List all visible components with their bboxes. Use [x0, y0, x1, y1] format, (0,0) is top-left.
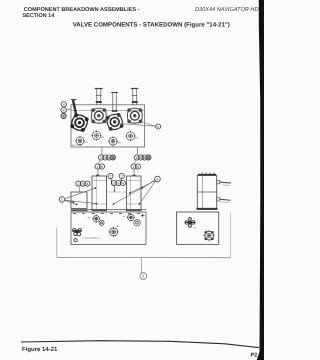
- callout 1 (front view left): [59, 197, 65, 203]
- svg-text:4: 4: [157, 177, 159, 181]
- port P3: [108, 136, 118, 146]
- svg-text:+x: +x: [88, 216, 92, 219]
- port cluster DP2: [127, 213, 140, 226]
- pendant callout 2: [140, 273, 147, 280]
- port cluster DP1: [92, 215, 104, 226]
- connector row A to row B right: [135, 160, 136, 164]
- leader lines to right callout: [119, 124, 156, 127]
- valve V2 (top view): [91, 108, 106, 123]
- feet under R3: [126, 210, 142, 212]
- stem of valve V2: [95, 89, 103, 106]
- row B left callouts 1 6: [95, 164, 105, 169]
- svg-text:1: 1: [97, 165, 99, 169]
- leader from stack to box: [67, 109, 72, 111]
- base plate bottom edge: [57, 256, 231, 258]
- svg-text:Figure 14-21: Figure 14-21: [22, 346, 58, 353]
- svg-text:1: 1: [133, 165, 135, 169]
- svg-text:6: 6: [137, 165, 139, 169]
- center port: [109, 226, 119, 237]
- row A right callouts 1 5 6 8: [134, 155, 151, 160]
- svg-text:6: 6: [101, 165, 103, 169]
- scan gutter bar right edge: [257, 0, 264, 360]
- svg-text:4: 4: [86, 182, 88, 186]
- side block port B: [204, 230, 215, 241]
- manifold front box: [71, 212, 146, 245]
- connector row B to solenoid R2: [97, 169, 99, 176]
- svg-text:D30X44 NAVIGATOR HD: D30X44 NAVIGATOR HD: [195, 7, 259, 13]
- svg-text:8B: 8B: [118, 142, 121, 145]
- svg-text:2: 2: [113, 181, 115, 185]
- terminal tab upper: [217, 181, 220, 184]
- svg-text:3: 3: [117, 181, 119, 185]
- stack top dark cap: [198, 174, 216, 176]
- plus mark: [141, 214, 144, 217]
- solenoid valve R2 (front view tall): [92, 176, 107, 210]
- svg-text:8: 8: [63, 108, 65, 112]
- port P2: [91, 130, 101, 140]
- stem of valve V3: [111, 93, 118, 113]
- base plate right edge: [229, 213, 231, 258]
- svg-text:1M 1/02: 1M 1/02: [72, 144, 82, 147]
- stem of valve V4: [131, 89, 139, 106]
- svg-text:2: 2: [63, 114, 65, 118]
- svg-text:1B: 1B: [135, 137, 138, 140]
- svg-text:1: 1: [61, 198, 63, 202]
- pendant callout 2 stem: [140, 258, 142, 273]
- side view solenoid stack: [197, 175, 216, 209]
- stem of valve V1 (tilted): [73, 100, 76, 114]
- svg-text:6: 6: [144, 156, 146, 160]
- leader lines from callout 4: [114, 180, 155, 204]
- port P1: [75, 136, 85, 146]
- stem G1 to R1: [78, 187, 80, 192]
- connector row B to solenoid R3: [133, 169, 135, 176]
- svg-text:2: 2: [142, 274, 145, 279]
- stem G2 down: [113, 186, 115, 191]
- leader lines from callout 1: [65, 188, 96, 204]
- footer rule (bowed scan line): [21, 341, 259, 348]
- svg-text:1: 1: [136, 156, 138, 160]
- svg-text:2: 2: [77, 182, 79, 186]
- svg-text:8A: 8A: [85, 141, 88, 144]
- top view manifold box: [71, 105, 145, 147]
- callout 7 right with stem: [119, 173, 124, 184]
- left callout stack circle 8: [61, 107, 66, 112]
- mounting rail line: [71, 209, 147, 211]
- lead wire lower: [220, 199, 231, 200]
- svg-text:5: 5: [104, 156, 106, 160]
- valve V1 (top view, dark, tilted): [70, 113, 89, 132]
- stack bottom base: [197, 208, 218, 210]
- svg-text:9: 9: [194, 226, 196, 230]
- bolt dashes row: [73, 213, 140, 215]
- left callout stack circle 2: [61, 113, 66, 118]
- side view block: [177, 212, 219, 244]
- top view rear edge line: [71, 109, 145, 111]
- valve V4 (top view): [127, 108, 142, 123]
- svg-text:3: 3: [82, 182, 84, 186]
- terminal tab lower: [217, 198, 220, 201]
- svg-text:4-14WHEELS: 4-14WHEELS: [83, 236, 101, 240]
- svg-text:6: 6: [157, 125, 159, 129]
- connector top box to row A left: [101, 147, 103, 155]
- connector row A to row B left: [99, 160, 100, 164]
- svg-text:COMPONENT BREAKDOWN ASSEMBLIES: COMPONENT BREAKDOWN ASSEMBLIES -: [24, 7, 140, 13]
- svg-text:+x: +x: [123, 215, 127, 218]
- bolt lower left: [74, 239, 77, 242]
- svg-text:4: 4: [122, 181, 124, 185]
- side block port A (dark clover): [185, 217, 195, 228]
- callout group G1: 2 3 4: [76, 181, 90, 186]
- svg-text:7: 7: [110, 174, 112, 178]
- callout group G2: 2 3 4: [111, 180, 125, 185]
- lead wire upper: [220, 181, 231, 184]
- svg-text:1: 1: [100, 156, 102, 160]
- row B right callouts 1 6: [131, 164, 141, 169]
- callout 7 left with stem: [108, 173, 113, 184]
- solenoid valve R3 (front view tall): [127, 176, 142, 210]
- svg-text:8: 8: [147, 156, 149, 160]
- svg-text:4: 4: [63, 103, 65, 107]
- left callout stack circle 4: [61, 102, 66, 107]
- svg-text:8: 8: [112, 156, 114, 160]
- row A left callouts 1 5 4 8: [98, 155, 115, 160]
- right callout 6: [156, 124, 161, 129]
- connector top box to row A right: [136, 147, 138, 155]
- svg-text:5: 5: [140, 156, 142, 160]
- valve body R1 (front view short): [71, 192, 87, 209]
- star port left (dark cluster): [72, 228, 81, 235]
- base plate left edge: [56, 228, 58, 258]
- port P4: [125, 131, 135, 141]
- svg-text:1A: 1A: [101, 136, 104, 139]
- svg-text:4: 4: [108, 156, 110, 160]
- feet under R1: [71, 210, 88, 212]
- feet under R2: [92, 210, 108, 212]
- valve V3 (top view, tilted): [105, 113, 124, 132]
- gap floor line: [107, 191, 127, 193]
- svg-text:SECTION 14: SECTION 14: [23, 13, 55, 19]
- svg-text:7: 7: [121, 174, 123, 178]
- callout 4 (front view right): [155, 176, 161, 182]
- svg-text:VALVE COMPONENTS - STAKEDOWN (: VALVE COMPONENTS - STAKEDOWN (Figure "14…: [73, 21, 230, 28]
